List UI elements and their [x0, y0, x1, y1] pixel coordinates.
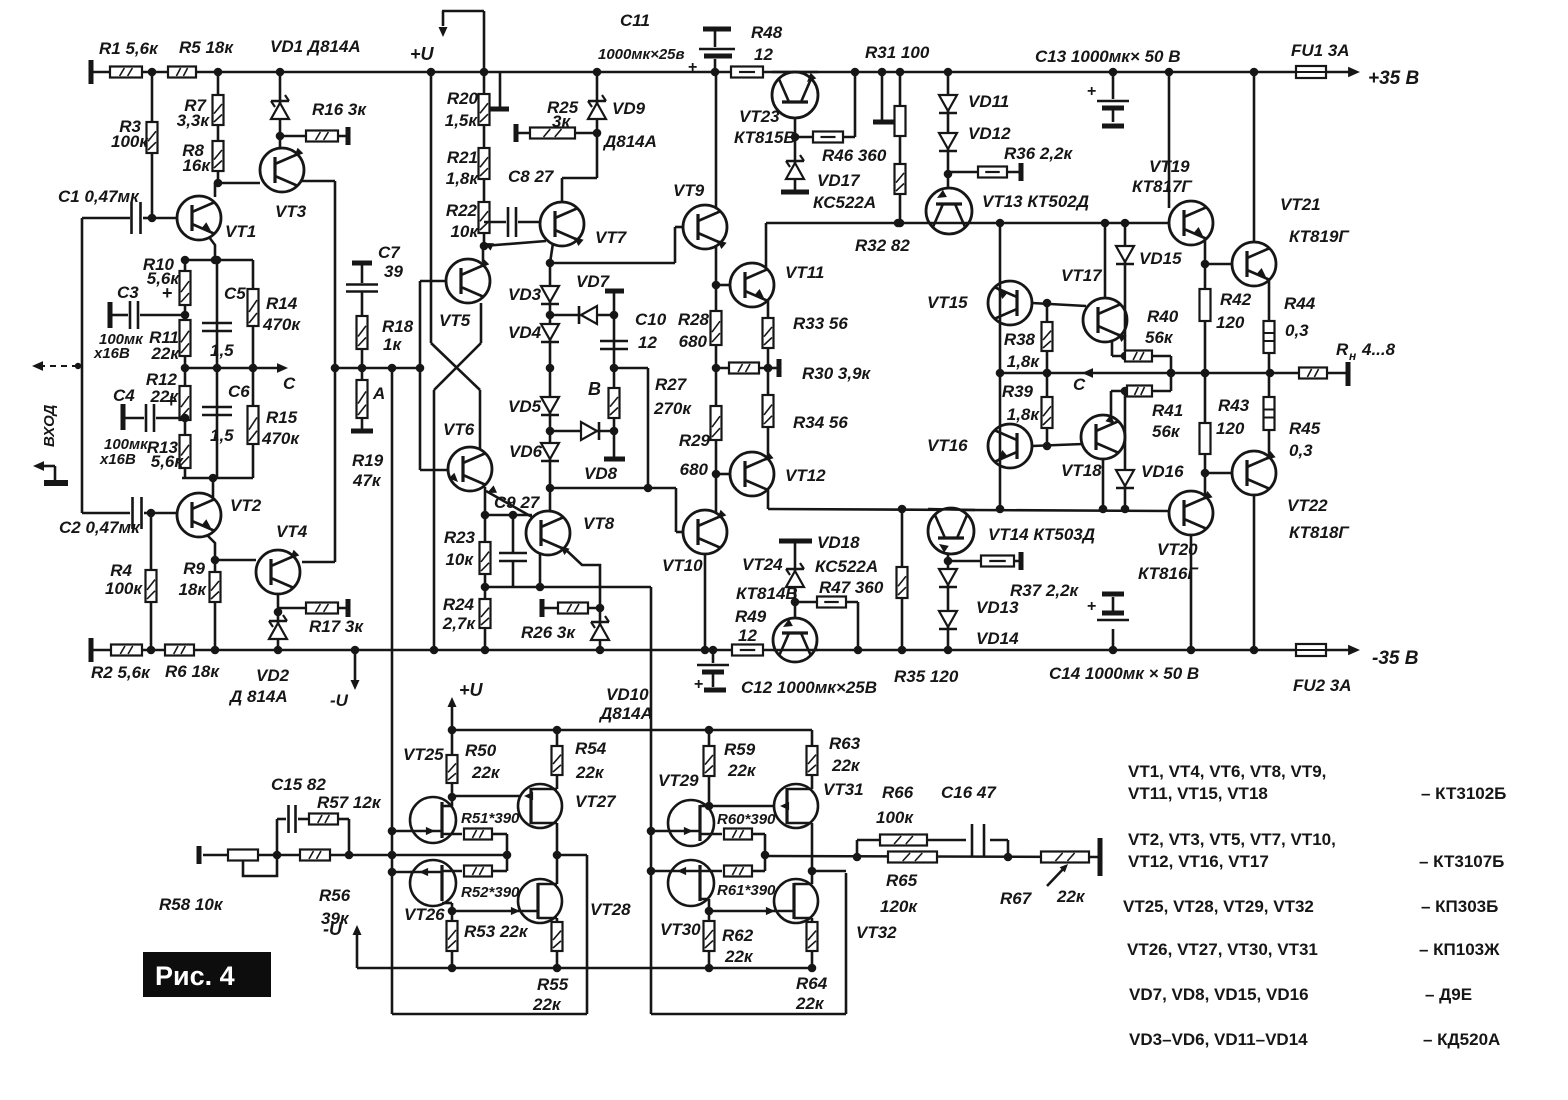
capacitor C14 [1112, 629, 1115, 650]
diode VD13 [939, 569, 957, 585]
wire VT18 emitter R41 [1110, 391, 1113, 417]
svg-text:R1 5,6к: R1 5,6к [99, 39, 159, 58]
transistor VT10 [683, 510, 727, 554]
resistor R11 [180, 320, 191, 356]
wire R7 R8 column [217, 72, 220, 183]
svg-text:R44: R44 [1284, 294, 1316, 313]
svg-text:R51*390: R51*390 [461, 810, 520, 827]
svg-text:КТ817Г: КТ817Г [1132, 177, 1193, 196]
svg-text:VT9: VT9 [673, 181, 705, 200]
wire VT10 collector to rail [704, 554, 707, 650]
transistor VT9 [683, 205, 727, 249]
svg-text:VD3: VD3 [508, 285, 542, 304]
transistor VT13 [926, 188, 972, 234]
transistor VT2 [177, 493, 221, 537]
svg-text:R28: R28 [678, 310, 710, 329]
svg-text:R66: R66 [882, 783, 914, 802]
svg-text:R9: R9 [183, 559, 205, 578]
resistor R63 [811, 730, 814, 789]
fuse FU1 [1296, 66, 1326, 78]
wire VT29 source R60 [700, 833, 722, 836]
svg-text:VD4: VD4 [508, 323, 542, 342]
+U bracket top [442, 11, 445, 26]
transistor VT7 [540, 202, 584, 246]
svg-text:1,8к: 1,8к [1007, 405, 1041, 424]
capacitor C9 [512, 515, 515, 553]
svg-text:47к: 47к [352, 471, 382, 490]
svg-text:22к: 22к [831, 756, 861, 775]
svg-text:R45: R45 [1289, 419, 1321, 438]
wire rail to X column [430, 72, 433, 343]
svg-text:VD10: VD10 [606, 685, 649, 704]
wire VT1 emitter [209, 237, 215, 260]
svg-text:C: C [283, 374, 296, 393]
svg-text:VT4: VT4 [276, 522, 308, 541]
svg-text:22к: 22к [532, 995, 562, 1014]
wire VT1 base [152, 217, 177, 220]
wire node C right arrow [1082, 368, 1093, 378]
wire R38 R39 column [1046, 303, 1049, 446]
svg-text:FU1 3А: FU1 3А [1291, 41, 1350, 60]
diode VD16 [1124, 391, 1127, 509]
svg-text:R41: R41 [1152, 401, 1183, 420]
wire VT8 collector to VD10 [564, 548, 600, 608]
diode VD8 [550, 430, 614, 433]
svg-text:VD12: VD12 [968, 124, 1011, 143]
wire VT8 line down to lower section [650, 587, 653, 1014]
svg-text:R64: R64 [796, 974, 828, 993]
svg-text:C16 47: C16 47 [941, 783, 997, 802]
capacitor C1 [82, 217, 130, 220]
svg-text:– КП303Б: – КП303Б [1421, 897, 1498, 916]
wire node A line [335, 367, 420, 370]
resistor R32 [895, 164, 906, 194]
wire VT18 collector [1102, 459, 1105, 509]
node C arrow [277, 363, 288, 373]
svg-text:VT30: VT30 [660, 920, 701, 939]
svg-text:R62: R62 [722, 926, 754, 945]
svg-text:R57 12к: R57 12к [317, 793, 382, 812]
resistor R55 [556, 918, 559, 968]
svg-text:КС522А: КС522А [813, 193, 876, 212]
wire bias bottom node [182, 477, 253, 480]
svg-text:R34 56: R34 56 [793, 413, 848, 432]
wire R33 R34 column [767, 301, 770, 458]
wire VT12 collector [767, 490, 770, 509]
svg-text:VT25, VT28, VT29, VT32: VT25, VT28, VT29, VT32 [1123, 897, 1314, 916]
svg-text:– КТ3107Б: – КТ3107Б [1419, 852, 1504, 871]
svg-text:56к: 56к [1152, 422, 1181, 441]
resistor R25 [514, 124, 519, 142]
svg-text:VD7: VD7 [576, 272, 611, 291]
resistor R6 [165, 645, 194, 656]
svg-text:VD16: VD16 [1141, 462, 1184, 481]
svg-text:R67: R67 [1000, 889, 1033, 908]
fet VT28 [518, 879, 562, 923]
capacitor C8 [484, 221, 506, 224]
svg-text:R58 10к: R58 10к [159, 895, 224, 914]
wire node B to R27 branch [614, 367, 648, 370]
diode VD4 [541, 324, 559, 340]
svg-text:+: + [1087, 83, 1096, 100]
capacitor C5 [202, 322, 232, 325]
resistor R44 [1264, 321, 1275, 353]
svg-text:R54: R54 [575, 739, 607, 758]
svg-text:680: 680 [680, 460, 709, 479]
svg-text:КТ815В: КТ815В [734, 128, 796, 147]
wire R40 R41 bracket [1170, 356, 1173, 391]
wire bias top node [183, 259, 253, 262]
svg-text:1,8к: 1,8к [446, 169, 480, 188]
svg-text:Д814А: Д814А [602, 132, 657, 151]
svg-text:х16В: х16В [99, 451, 136, 468]
wire VD9 to VT7 collector [562, 177, 597, 180]
svg-text:12: 12 [638, 333, 657, 352]
resistor R22 [479, 202, 490, 233]
svg-text:ВХОД: ВХОД [41, 404, 58, 447]
svg-text:Д 814А: Д 814А [228, 687, 288, 706]
capacitor C12 [712, 650, 715, 663]
resistor R54 [556, 730, 559, 789]
wire output line lower [765, 856, 1100, 857]
resistor R17 [278, 607, 348, 610]
svg-text:VT18: VT18 [1061, 461, 1102, 480]
resistor R37 [948, 560, 1021, 563]
wire R3 column [151, 72, 154, 218]
wire -U bus lower [357, 967, 812, 970]
wire right block left column [647, 827, 656, 836]
svg-text:R18: R18 [382, 317, 414, 336]
svg-text:R39: R39 [1002, 382, 1034, 401]
svg-text:VD6: VD6 [509, 442, 543, 461]
fet VT26 [410, 860, 456, 906]
load resistor Rn [1299, 368, 1327, 379]
svg-text:VT2: VT2 [230, 496, 262, 515]
wire VT4 collector [302, 561, 335, 564]
resistor R33 [763, 318, 774, 348]
resistor R15 [248, 406, 259, 444]
resistor R19 [361, 368, 364, 429]
svg-text:VD14: VD14 [976, 629, 1019, 648]
wire VT11 base [716, 284, 730, 287]
resistor R28 [711, 311, 722, 345]
resistor R14 [248, 289, 259, 326]
capacitor C6 [202, 406, 232, 409]
resistor R56 [300, 850, 330, 861]
capacitor C3 [108, 302, 113, 328]
svg-text:C1 0,47мк: C1 0,47мк [58, 187, 140, 206]
svg-text:0,3: 0,3 [1285, 321, 1309, 340]
capacitor C11 [703, 27, 731, 32]
resistor R12 [180, 386, 191, 420]
svg-text:R47 360: R47 360 [819, 578, 884, 597]
svg-text:R16 3к: R16 3к [312, 100, 367, 119]
zener VD9 column [596, 72, 599, 178]
svg-text:R40: R40 [1147, 307, 1179, 326]
fet VT31 [774, 784, 818, 828]
transistor VT20 [1169, 491, 1213, 535]
resistor R20 [479, 94, 490, 125]
svg-text:R65: R65 [886, 871, 918, 890]
wire VT14 base column diodes [947, 553, 950, 650]
wire VT21 emitter column [1268, 281, 1271, 375]
svg-text:18к: 18к [178, 580, 207, 599]
resistor R21 [479, 148, 490, 179]
wire VT21 collector [1253, 72, 1256, 242]
diode VD15 [1124, 223, 1127, 351]
svg-text:VT2, VT3, VT5, VT7, VT10,: VT2, VT3, VT5, VT7, VT10, [1128, 830, 1336, 849]
resistor R26 [540, 599, 545, 617]
svg-text:1,8к: 1,8к [1007, 352, 1041, 371]
svg-text:VD15: VD15 [1139, 249, 1182, 268]
svg-text:R55: R55 [537, 975, 569, 994]
wire VT30 drain R62 [700, 898, 709, 901]
wire VT20 collector [1190, 535, 1193, 650]
resistor R46 [795, 136, 855, 139]
svg-text:22к: 22к [575, 763, 605, 782]
svg-text:н: н [1349, 349, 1357, 363]
svg-text:VT27: VT27 [575, 792, 617, 811]
svg-text:12: 12 [754, 45, 773, 64]
svg-text:C8 27: C8 27 [508, 167, 555, 186]
resistor R1 [110, 67, 142, 78]
transistor VT19 [1169, 201, 1213, 245]
capacitor C13 [1112, 72, 1115, 99]
resistor R53 [447, 921, 458, 951]
resistor R49 [732, 645, 763, 656]
svg-text:КТ819Г: КТ819Г [1289, 227, 1350, 246]
svg-text:R14: R14 [266, 294, 298, 313]
wire VT6 collector to VT8 [486, 491, 532, 517]
wire VT5 collector / VT7 emitter [482, 246, 485, 262]
svg-text:VD2: VD2 [256, 666, 290, 685]
wire +35V top rail [91, 71, 1296, 74]
svg-text:VT3: VT3 [275, 202, 307, 221]
svg-text:100к: 100к [111, 132, 149, 151]
svg-text:VT28: VT28 [590, 900, 631, 919]
wire C15 R57 branch [276, 819, 279, 855]
svg-text:22к: 22к [150, 344, 180, 363]
wire VT15 base line [1032, 303, 1086, 306]
wire VT19 emitter column [1204, 240, 1207, 497]
svg-text:VT11, VT15, VT18: VT11, VT15, VT18 [1128, 784, 1268, 803]
wire VT11 collector [765, 223, 768, 269]
zener VD2 [269, 623, 287, 639]
svg-text:R37 2,2к: R37 2,2к [1010, 581, 1080, 600]
svg-text:R61*390: R61*390 [717, 882, 776, 899]
input arrows [40, 365, 78, 367]
resistor R34 [763, 395, 774, 427]
transistor VT16 [988, 424, 1032, 468]
wire VT17 collector [1104, 223, 1107, 298]
svg-text:VD11: VD11 [968, 92, 1009, 111]
transistor VT1 [177, 196, 221, 240]
resistor R61 [724, 866, 752, 877]
svg-text:VT7: VT7 [595, 228, 628, 247]
wire VT31 source column [811, 823, 814, 884]
svg-text:C11: C11 [620, 11, 650, 30]
svg-text:39: 39 [384, 262, 403, 281]
svg-text:VD17: VD17 [817, 171, 861, 190]
svg-text:VD3–VD6, VD11–VD14: VD3–VD6, VD11–VD14 [1129, 1030, 1308, 1049]
diode VD3 [541, 286, 559, 302]
wire VD11 VD12 column [947, 72, 950, 188]
svg-text:R29: R29 [679, 431, 711, 450]
svg-text:1000мк×25в: 1000мк×25в [598, 46, 685, 63]
resistor R62 [704, 921, 715, 951]
resistor R67 [1041, 852, 1089, 863]
svg-text:100к: 100к [105, 579, 143, 598]
wire node C left line [185, 367, 281, 370]
wire VT1 collector / VT3 base node [214, 183, 217, 197]
svg-text:VT13 КТ502Д: VT13 КТ502Д [982, 192, 1089, 211]
svg-text:– Д9Е: – Д9Е [1425, 985, 1472, 1004]
svg-text:-35 В: -35 В [1372, 648, 1419, 669]
svg-text:VT8: VT8 [583, 514, 615, 533]
svg-text:VT29: VT29 [658, 771, 699, 790]
svg-text:R31 100: R31 100 [865, 43, 930, 62]
wire diode string column [549, 263, 552, 511]
resistor R13 [180, 435, 191, 468]
svg-text:R50: R50 [465, 741, 497, 760]
wire VT4 emitter column [277, 594, 280, 650]
svg-text:VD18: VD18 [817, 533, 860, 552]
svg-text:C4: C4 [113, 386, 135, 405]
capacitor C2 [82, 512, 130, 515]
svg-text:VT22: VT22 [1287, 496, 1328, 515]
svg-text:C12 1000мк×25В: C12 1000мк×25В [741, 678, 877, 697]
resistor R48 [731, 67, 763, 78]
svg-text:х16В: х16В [93, 345, 130, 362]
transistor VT11 [730, 263, 774, 307]
svg-text:VT16: VT16 [927, 436, 968, 455]
zener VD17 [786, 163, 804, 179]
svg-text:R36 2,2к: R36 2,2к [1004, 144, 1074, 163]
svg-text:R56: R56 [319, 886, 351, 905]
svg-text:Д814А: Д814А [598, 704, 653, 723]
svg-text:R22: R22 [446, 201, 478, 220]
wire VT8 base C9 node [485, 514, 532, 517]
svg-text:100к: 100к [876, 808, 914, 827]
svg-text:VT23: VT23 [739, 107, 780, 126]
svg-text:VT6: VT6 [443, 420, 475, 439]
svg-text:120: 120 [1216, 313, 1245, 332]
resistor R64 [811, 918, 814, 968]
zener VD10 [599, 608, 602, 650]
wire y488 line to VT10 base [550, 487, 676, 490]
resistor R18 [357, 316, 368, 349]
resistor R66 [880, 835, 927, 846]
svg-text:22к: 22к [795, 994, 825, 1013]
svg-text:VT24: VT24 [742, 555, 783, 574]
wire VT19 collector [1168, 72, 1171, 208]
svg-text:R17 3к: R17 3к [309, 617, 364, 636]
wire R4 column [150, 513, 153, 650]
wire VT22 collector [1253, 495, 1256, 650]
wire C5 C6 column [216, 260, 219, 478]
resistor R36 [948, 171, 1021, 174]
transistor VT21 [1232, 242, 1276, 286]
svg-text:VT11: VT11 [785, 263, 824, 282]
diode VD14 [939, 611, 957, 627]
resistor R24 [480, 599, 491, 628]
svg-text:+35 В: +35 В [1368, 68, 1420, 89]
svg-text:VT32: VT32 [856, 923, 897, 942]
resistor R7 [213, 95, 224, 125]
svg-text:R2 5,6к: R2 5,6к [91, 663, 151, 682]
svg-text:22к: 22к [471, 763, 501, 782]
resistor R42 [1200, 289, 1211, 321]
svg-text:C14 1000мк × 50 В: C14 1000мк × 50 В [1049, 664, 1199, 683]
transistor VT24 [773, 618, 817, 662]
svg-text:A: A [372, 384, 385, 403]
svg-text:R23: R23 [444, 528, 476, 547]
svg-text:VT25: VT25 [403, 745, 444, 764]
resistor R57 [309, 814, 338, 825]
diode VD11 [939, 95, 957, 111]
capacitor C4 [121, 404, 126, 430]
fet VT27 [518, 784, 562, 828]
wire VT27 gate [452, 795, 531, 798]
svg-text:VT21: VT21 [1280, 195, 1321, 214]
capacitor C10 [605, 289, 624, 294]
svg-text:R49: R49 [735, 607, 767, 626]
svg-text:R42: R42 [1220, 290, 1252, 309]
svg-text:R4: R4 [110, 561, 132, 580]
svg-text:C7: C7 [378, 243, 401, 262]
wire gate stubs [392, 830, 410, 833]
resistor R40 [1125, 351, 1152, 362]
svg-text:3,3к: 3,3к [177, 111, 211, 130]
svg-text:VT26: VT26 [404, 905, 445, 924]
svg-text:VT15: VT15 [927, 293, 968, 312]
svg-text:C13 1000мк× 50 В: C13 1000мк× 50 В [1035, 47, 1180, 66]
svg-text:R48: R48 [751, 23, 783, 42]
wire R66 C16 branch [856, 840, 859, 857]
svg-text:– КД520А: – КД520А [1423, 1030, 1500, 1049]
svg-text:10к: 10к [445, 550, 474, 569]
svg-text:VD7, VD8, VD15, VD16: VD7, VD8, VD15, VD16 [1129, 985, 1309, 1004]
wire VT27 VT28 node [553, 851, 562, 860]
fet VT25 [410, 797, 456, 843]
wire left block bottom loop [392, 1013, 587, 1016]
svg-text:R30 3,9к: R30 3,9к [802, 364, 872, 383]
wire VT9 collector [715, 72, 718, 208]
svg-text:R52*390: R52*390 [461, 884, 520, 901]
svg-text:C5: C5 [224, 284, 246, 303]
wire VT5 VT6 cross couple [419, 281, 422, 470]
wire VT7 to VT9 base [550, 262, 675, 265]
fuse FU2 [1296, 644, 1326, 656]
svg-text:B: B [588, 379, 601, 399]
svg-text:12: 12 [738, 626, 757, 645]
svg-text:VT1: VT1 [225, 222, 256, 241]
svg-text:R32 82: R32 82 [855, 236, 910, 255]
svg-text:22к: 22к [1056, 887, 1086, 906]
resistor R2 [111, 645, 142, 656]
svg-text:C15 82: C15 82 [271, 775, 326, 794]
svg-text:R6 18к: R6 18к [165, 662, 220, 681]
wire R14 R15 column [252, 260, 255, 478]
resistor R4 [146, 570, 157, 602]
fet VT32 [774, 879, 818, 923]
svg-text:VD9: VD9 [612, 99, 646, 118]
svg-text:R19: R19 [352, 451, 384, 470]
svg-text:+: + [162, 283, 173, 303]
wire VT23 base column VD17 [794, 118, 797, 190]
transistor VT22 [1232, 451, 1276, 495]
resistor R8 [213, 141, 224, 171]
